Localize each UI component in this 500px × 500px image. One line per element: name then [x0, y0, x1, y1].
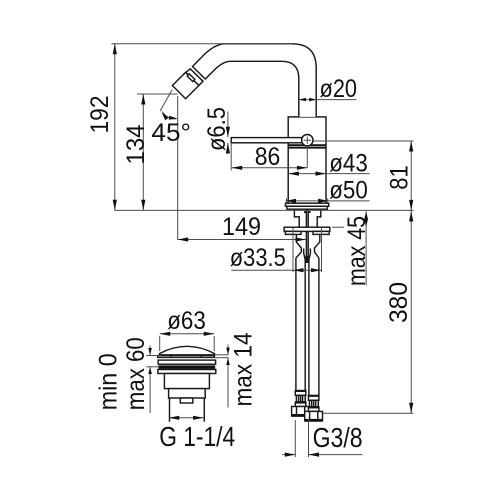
- svg-text:192: 192: [86, 96, 114, 134]
- svg-text:min 0: min 0: [94, 353, 122, 410]
- handle pivot: [302, 135, 313, 146]
- dimension 86: [232, 167, 308, 169]
- base plate: [286, 203, 329, 206]
- pull rod: [306, 209, 308, 263]
- hose left collar: [295, 402, 306, 407]
- shank: [294, 209, 320, 227]
- drain body upper: [164, 374, 209, 389]
- extension aerator level: [137, 93, 178, 95]
- hose right: [308, 260, 310, 395]
- svg-text:G 1-1/4: G 1-1/4: [159, 421, 235, 452]
- extension top: [111, 43, 292, 45]
- hose fitting right: [309, 234, 320, 260]
- hose left ferrule: [295, 391, 306, 396]
- dimension G1-1/4: [169, 417, 204, 419]
- svg-text:G3/8: G3/8: [313, 422, 363, 453]
- svg-text:max 14: max 14: [230, 332, 258, 406]
- cartridge band: [288, 144, 326, 146]
- nut tab right: [313, 231, 329, 234]
- svg-text:ø63: ø63: [167, 307, 206, 335]
- handle lever: [231, 138, 303, 143]
- aerator tip: [172, 72, 198, 98]
- drain body middle: [169, 389, 206, 398]
- hose right collar: [308, 407, 319, 412]
- dimension 192: [114, 44, 116, 211]
- svg-text:ø6.5: ø6.5: [203, 107, 231, 151]
- hose right nut: [305, 411, 323, 421]
- hose left ribs: [296, 395, 305, 402]
- mounting nut: [284, 227, 330, 231]
- dimension 380: [410, 210, 412, 413]
- dimension dia33.5: [292, 228, 294, 272]
- dimension 149: [178, 239, 306, 241]
- svg-text:ø43: ø43: [329, 150, 368, 178]
- angle 45 leg: [160, 90, 172, 112]
- svg-text:86: 86: [255, 143, 281, 171]
- node aerator tip reference: [177, 96, 179, 240]
- dimension dia6.5: [227, 112, 229, 138]
- hose fitting left: [296, 234, 305, 260]
- drain lower flange: [158, 370, 216, 374]
- dimension min0 max60: [149, 346, 151, 356]
- svg-text:380: 380: [385, 282, 413, 323]
- hose right ferrule: [308, 395, 319, 400]
- extension nut top: [332, 226, 344, 228]
- dimension G3/8: [294, 420, 296, 457]
- aerator detail: [187, 74, 195, 82]
- counter line: [115, 209, 414, 211]
- dimension max14: [227, 345, 229, 355]
- extension pivot: [313, 140, 413, 142]
- spout: [193, 44, 317, 117]
- faucet body: [288, 117, 326, 203]
- base lip: [287, 206, 327, 209]
- svg-text:ø33.5: ø33.5: [230, 244, 286, 272]
- dimension 134: [142, 94, 144, 210]
- svg-text:134: 134: [122, 124, 150, 164]
- svg-text:ø20: ø20: [320, 75, 358, 103]
- dimension dia50: [286, 200, 370, 202]
- svg-text:max 60: max 60: [122, 337, 150, 410]
- svg-text:149: 149: [222, 213, 261, 241]
- drain slot: [180, 398, 193, 403]
- svg-text:81: 81: [386, 165, 414, 190]
- drain cap dome: [160, 346, 215, 355]
- drain gasket: [159, 365, 216, 369]
- hose left nut: [292, 407, 310, 417]
- drain thread tube: [170, 398, 205, 422]
- svg-text:45°: 45°: [151, 119, 191, 147]
- dimension 81: [410, 141, 412, 210]
- hose left: [295, 258, 297, 391]
- dimension dia20: [299, 99, 356, 101]
- extension hose end: [323, 412, 414, 414]
- hose right ribs: [310, 400, 319, 407]
- dimension dia43: [288, 173, 369, 175]
- dimension max45: [365, 212, 367, 286]
- svg-text:max 45: max 45: [343, 216, 371, 286]
- rod tip: [305, 256, 309, 263]
- drain cap ring: [158, 356, 215, 358]
- dimension dia63: [159, 336, 161, 351]
- nut tab left: [285, 231, 301, 234]
- svg-text:ø50: ø50: [329, 177, 368, 205]
- aerator collar: [186, 69, 203, 86]
- angle 45 arc: [162, 112, 176, 119]
- drain upper flange: [158, 360, 215, 364]
